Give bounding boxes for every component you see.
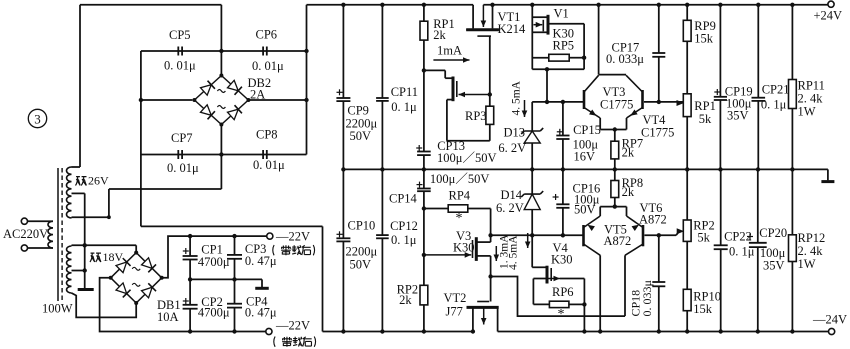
svg-text:+24V: +24V xyxy=(814,9,843,23)
svg-text:2200μ: 2200μ xyxy=(346,244,378,258)
svg-text:A872: A872 xyxy=(639,213,667,227)
svg-text:*: * xyxy=(558,307,565,322)
svg-text:AC220V: AC220V xyxy=(3,227,48,241)
svg-text:C1775: C1775 xyxy=(641,126,674,140)
svg-text:RP4: RP4 xyxy=(449,189,471,203)
svg-text:18V: 18V xyxy=(103,250,124,264)
svg-text:K30: K30 xyxy=(551,253,573,267)
svg-text:1mA: 1mA xyxy=(437,44,462,58)
svg-text:RP6: RP6 xyxy=(552,285,574,299)
svg-text:10A: 10A xyxy=(157,310,179,324)
svg-text:50V: 50V xyxy=(350,257,372,271)
svg-text:16V: 16V xyxy=(574,149,596,163)
svg-text:0. 1μ: 0. 1μ xyxy=(391,100,417,114)
svg-text:CP10: CP10 xyxy=(348,219,376,233)
svg-text:2k: 2k xyxy=(622,185,635,199)
svg-text:CP8: CP8 xyxy=(256,128,278,142)
svg-text:C1775: C1775 xyxy=(600,98,633,112)
svg-text:—24V: —24V xyxy=(812,313,847,327)
svg-text:CP14: CP14 xyxy=(389,192,418,206)
svg-text:50V: 50V xyxy=(350,129,372,143)
svg-text:2k: 2k xyxy=(399,293,412,307)
svg-text:1W: 1W xyxy=(798,257,816,271)
svg-text:RP5: RP5 xyxy=(553,39,575,53)
svg-text:RP11: RP11 xyxy=(798,79,825,93)
svg-text:15k: 15k xyxy=(694,32,714,46)
svg-text:CP7: CP7 xyxy=(171,131,193,145)
svg-text:CP21: CP21 xyxy=(762,82,790,96)
svg-text:4700μ: 4700μ xyxy=(198,305,230,319)
svg-text:0. 01μ: 0. 01μ xyxy=(253,158,285,172)
svg-text:RP1: RP1 xyxy=(694,99,716,113)
svg-text:K214: K214 xyxy=(498,22,527,36)
svg-text:4. 5mA: 4. 5mA xyxy=(508,235,520,270)
svg-text:3: 3 xyxy=(34,111,41,126)
svg-text:J77: J77 xyxy=(446,305,463,319)
svg-text:0. 033μ: 0. 033μ xyxy=(606,52,644,66)
svg-text:4700μ: 4700μ xyxy=(198,255,230,269)
svg-text:CP12: CP12 xyxy=(390,219,418,233)
svg-text:2k: 2k xyxy=(622,146,635,160)
svg-text:VT2: VT2 xyxy=(444,291,467,305)
svg-text:5k: 5k xyxy=(697,231,710,245)
svg-text:26V: 26V xyxy=(88,174,109,188)
svg-text:100μ／50V: 100μ／50V xyxy=(437,151,496,165)
svg-text:0. 033μ: 0. 033μ xyxy=(640,280,654,316)
svg-text:D13: D13 xyxy=(504,126,526,140)
svg-text:0. 01μ: 0. 01μ xyxy=(252,59,284,73)
svg-text:15k: 15k xyxy=(693,302,713,316)
svg-text:35V: 35V xyxy=(763,258,785,272)
svg-text:RP3: RP3 xyxy=(465,109,487,123)
svg-text:2k: 2k xyxy=(433,28,446,42)
svg-text:CP6: CP6 xyxy=(256,28,278,42)
svg-text:—22V: —22V xyxy=(275,319,310,333)
svg-text:6. 2V: 6. 2V xyxy=(496,201,524,215)
svg-text:6. 2V: 6. 2V xyxy=(498,141,526,155)
svg-text:0. 47μ: 0. 47μ xyxy=(245,254,277,268)
svg-text:CP11: CP11 xyxy=(391,85,418,99)
svg-text:A872: A872 xyxy=(604,234,632,248)
svg-text:5k: 5k xyxy=(699,112,712,126)
svg-text:35V: 35V xyxy=(727,109,749,123)
svg-text:4. 5mA: 4. 5mA xyxy=(511,80,523,115)
svg-text:CP20: CP20 xyxy=(759,226,787,240)
svg-text:D14: D14 xyxy=(501,188,523,202)
svg-text:K30: K30 xyxy=(453,241,475,255)
svg-text:CP15: CP15 xyxy=(573,123,601,137)
svg-text:100μ／50V: 100μ／50V xyxy=(430,172,489,186)
svg-text:2. 4k: 2. 4k xyxy=(798,244,824,258)
svg-text:*: * xyxy=(456,211,463,226)
svg-text:0. 1μ: 0. 1μ xyxy=(391,233,417,247)
svg-text:0. 01μ: 0. 01μ xyxy=(167,161,199,175)
svg-text:1W: 1W xyxy=(798,105,816,119)
svg-text:0. 1μ: 0. 1μ xyxy=(761,98,787,112)
svg-text:2. 4k: 2. 4k xyxy=(798,92,824,106)
svg-text:CP5: CP5 xyxy=(169,28,191,42)
svg-text:V1: V1 xyxy=(554,7,569,21)
svg-text:100W: 100W xyxy=(42,302,73,316)
svg-text:0. 01μ: 0. 01μ xyxy=(164,59,196,73)
svg-text:RP12: RP12 xyxy=(798,231,826,245)
svg-text:50V: 50V xyxy=(574,203,596,217)
svg-text:—22V: —22V xyxy=(275,230,310,244)
svg-text:0. 47μ: 0. 47μ xyxy=(245,305,277,319)
